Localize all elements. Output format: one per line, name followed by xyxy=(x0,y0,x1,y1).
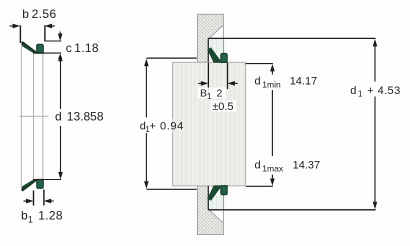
seal free outline right vertical xyxy=(42,54,44,179)
bottom seal body xyxy=(37,179,44,188)
seal free outline middle vertical xyxy=(33,54,35,179)
dimension c bottom arrow xyxy=(58,54,62,60)
dimension d1+0.94 line lower xyxy=(145,133,147,185)
svg-text:2: 2 xyxy=(217,88,223,100)
dimension B1 left extension line xyxy=(207,63,209,97)
dimension B1 right extension line xyxy=(227,63,229,89)
svg-text:1max: 1max xyxy=(262,164,284,174)
mounted seal lower body xyxy=(221,186,227,195)
dimension d1+4.53 label xyxy=(349,83,403,96)
dimension d1+0.94 label xyxy=(139,118,173,133)
dimension d1max connector xyxy=(246,185,273,187)
dimension d1max bottom arrow xyxy=(271,175,273,182)
mounted seal upper body xyxy=(221,53,227,62)
svg-text:b: b xyxy=(22,7,29,21)
shaft lower section xyxy=(197,186,223,235)
dimension c top line xyxy=(44,40,61,42)
dimension b1 right extension line xyxy=(43,190,45,206)
shaft seat edge lower xyxy=(207,186,209,210)
counterface block xyxy=(173,62,246,186)
svg-text:d: d xyxy=(255,160,261,172)
counterface lower line xyxy=(208,209,375,211)
top seal lip edge xyxy=(23,42,37,53)
dimension B1 left arrow xyxy=(198,82,206,84)
svg-text:B: B xyxy=(200,88,207,100)
svg-text:14.17: 14.17 xyxy=(290,76,318,88)
dimension B1 right arrow xyxy=(230,82,238,84)
svg-text:+: + xyxy=(149,121,155,133)
seal ghost lower xyxy=(209,195,223,209)
seal free outline left vertical xyxy=(20,45,22,189)
svg-text:1: 1 xyxy=(28,214,33,224)
dimension d1+0.94 top arrow xyxy=(144,59,149,66)
svg-text:1: 1 xyxy=(358,89,363,98)
bottom seal lip edge xyxy=(23,180,37,191)
dimension b left arrow xyxy=(10,25,19,27)
shaft seat edge upper xyxy=(207,38,209,62)
dimension d1+4.53 top arrow xyxy=(373,39,378,46)
bottom seal tip edge xyxy=(21,188,23,192)
dimension B1 tolerance label xyxy=(211,101,236,112)
svg-text:1: 1 xyxy=(207,92,212,101)
svg-text:1min: 1min xyxy=(262,80,281,90)
dimension d line lower xyxy=(60,126,62,174)
svg-text:c: c xyxy=(66,41,72,55)
svg-text:13.858: 13.858 xyxy=(67,110,104,124)
counterface upper line xyxy=(208,37,375,39)
svg-text:d: d xyxy=(55,110,62,124)
svg-text:1.28: 1.28 xyxy=(38,209,63,223)
dimension b left extension line xyxy=(19,25,21,43)
mounted seal upper lip xyxy=(208,48,220,62)
dimension d1+4.53 line lower xyxy=(374,97,376,206)
dimension d1+0.94 bottom arrow xyxy=(144,181,149,188)
mounted seal lower lip xyxy=(208,186,220,200)
dimension d top arrow xyxy=(58,56,62,62)
top seal bottom face line xyxy=(33,52,61,54)
dimension b right arrow xyxy=(47,25,55,27)
dimension d bottom arrow xyxy=(58,172,63,179)
svg-text:14.37: 14.37 xyxy=(293,160,321,172)
svg-text:+ 4.53: + 4.53 xyxy=(367,85,400,97)
dimension b1 left arrow xyxy=(24,200,32,202)
dimension b1 right arrow xyxy=(46,200,54,202)
chamfer bore edge upper xyxy=(222,25,224,38)
chamfer bore edge lower xyxy=(222,210,224,223)
dimension d1min top arrow xyxy=(270,64,275,71)
dimension d1+0.94 bottom connector xyxy=(146,188,196,190)
seal ghost upper xyxy=(209,39,223,53)
bottom seal top face line xyxy=(33,179,61,181)
centerline tick xyxy=(20,115,49,117)
shaft upper section xyxy=(197,14,223,62)
dimension d line upper xyxy=(60,60,62,109)
top seal tip edge xyxy=(21,42,23,46)
svg-text:0.94: 0.94 xyxy=(160,121,184,133)
top seal body xyxy=(37,44,44,53)
dimension b right extension line xyxy=(44,25,46,41)
top seal lip fill xyxy=(22,42,36,53)
svg-text:1.18: 1.18 xyxy=(74,41,99,55)
svg-text:d: d xyxy=(350,85,356,97)
dimension d1+4.53 bottom arrow xyxy=(373,202,378,209)
dimension d1min connector xyxy=(246,63,273,65)
dimension d1 mid line xyxy=(271,90,273,156)
bottom seal lip fill xyxy=(22,179,36,190)
dimension B1 label xyxy=(198,88,226,99)
dimension b1 left extension line xyxy=(33,191,35,206)
svg-text:2.56: 2.56 xyxy=(32,7,57,21)
svg-text:±0.5: ±0.5 xyxy=(212,101,233,113)
svg-text:d: d xyxy=(255,76,261,88)
dimension c top arrow xyxy=(59,32,61,37)
dimension d1+0.94 top connector xyxy=(146,57,196,59)
